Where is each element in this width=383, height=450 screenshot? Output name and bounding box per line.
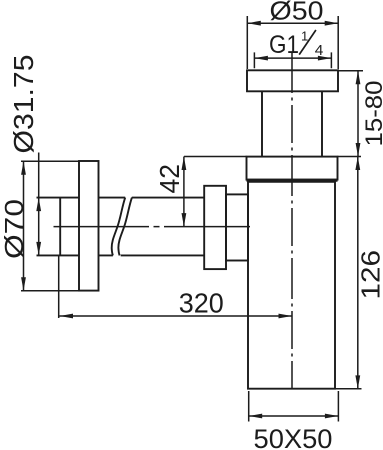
svg-text:G1: G1 [269, 31, 299, 59]
arrow 42 up [182, 157, 187, 171]
dim 50X50 extension lines [249, 391, 339, 422]
arrow Ø31.75 up [36, 198, 41, 212]
arrow G1 right [318, 56, 332, 61]
dim Ø70 extension lines [21, 161, 79, 290]
arrow Ø50 right [325, 21, 339, 26]
dim Ø70 line [23, 161, 25, 290]
dim 126 line [357, 157, 359, 389]
svg-text:Ø70: Ø70 [0, 199, 29, 259]
svg-text:320: 320 [179, 288, 224, 319]
top nut of trap body [247, 157, 338, 180]
wire vertical centerline of trap body [291, 52, 293, 389]
arrow 50X50 left [249, 414, 263, 419]
inlet pipe stub into wall [59, 198, 61, 256]
dim 320 extension line left [58, 256, 60, 318]
arrow 50X50 right [325, 414, 339, 419]
top flange (wall plate of outlet) [247, 70, 338, 91]
dim Ø50 line [247, 22, 338, 24]
dim Ø31.75 leader/dim line [38, 153, 40, 256]
extension line flange top right [338, 70, 363, 72]
arrow 15-80 down [356, 143, 361, 157]
svg-text:Ø31.75: Ø31.75 [8, 54, 39, 153]
dim 50X50 line [249, 415, 339, 417]
arrow Ø70 down [21, 277, 26, 291]
dim Ø50 extension lines [247, 16, 338, 69]
arrow 320 left [60, 314, 74, 319]
arrow 320 right [279, 314, 293, 319]
inlet horizontal pipe [99, 197, 205, 199]
arrow Ø50 left [247, 21, 260, 26]
arrow Ø31.75 down [36, 242, 41, 256]
trap body cup [248, 182, 335, 389]
svg-text:42: 42 [154, 164, 185, 194]
svg-text:15-80: 15-80 [361, 81, 383, 147]
arrow 15-80 up [356, 71, 361, 85]
svg-text:126: 126 [356, 250, 383, 300]
svg-text:4: 4 [315, 42, 324, 59]
svg-text:50X50: 50X50 [254, 424, 333, 450]
svg-text:Ø50: Ø50 [270, 0, 324, 26]
vertical outlet pipe [262, 91, 322, 156]
wall flange plate (left) [79, 161, 99, 291]
wire horizontal centerline of inlet pipe [54, 226, 255, 228]
compression nut on inlet pipe [204, 186, 226, 269]
arrow Ø70 up [21, 161, 26, 175]
extension line body bottom right [335, 388, 362, 390]
arrow G1 left [254, 56, 268, 61]
dim G1 1/4 line [254, 57, 331, 59]
pipe break squiggle [112, 198, 126, 256]
dim 42 line [183, 157, 185, 227]
arrow 126 up [355, 157, 360, 171]
fraction slash [299, 30, 316, 55]
arrow 126 down [355, 375, 360, 389]
dim G1 1/4 ticks [254, 52, 331, 68]
dim 320 line [60, 315, 293, 317]
dim 15-80 line [357, 71, 359, 157]
collar between nut and body [226, 194, 248, 260]
svg-text:1: 1 [301, 29, 308, 44]
thick joint line under top nut [247, 179, 338, 182]
extension line nut top, 42 left + right [184, 156, 361, 158]
arrow 42 down [182, 213, 187, 227]
